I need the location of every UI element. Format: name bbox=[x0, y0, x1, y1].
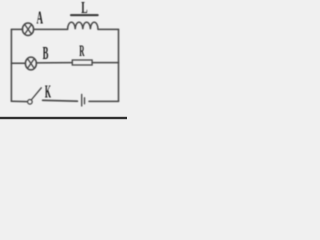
svg-text:R: R bbox=[79, 42, 85, 60]
resistor R bbox=[72, 60, 92, 65]
wire top-left segment bbox=[11, 28, 22, 30]
wire left vertical bbox=[10, 29, 12, 101]
switch K bbox=[28, 88, 42, 104]
wire battery to bottom-right corner bbox=[89, 100, 119, 102]
wire bottom-left segment bbox=[11, 100, 27, 102]
svg-text:A: A bbox=[37, 9, 44, 29]
svg-text:K: K bbox=[45, 82, 51, 101]
wire inductor to top-right corner bbox=[98, 28, 119, 30]
inductor L bbox=[68, 22, 98, 29]
battery bbox=[82, 94, 85, 106]
wire middle-left segment bbox=[11, 62, 25, 64]
wire switch to battery bbox=[43, 99, 78, 102]
wire lamp B to resistor bbox=[36, 62, 72, 64]
wire right vertical bbox=[118, 29, 120, 101]
label L bbox=[71, 0, 98, 17]
lamp A bbox=[22, 23, 33, 36]
wire resistor to right bbox=[92, 62, 118, 64]
svg-text:B: B bbox=[43, 44, 49, 64]
wire lamp A to inductor bbox=[34, 28, 68, 30]
lamp B bbox=[25, 57, 36, 70]
